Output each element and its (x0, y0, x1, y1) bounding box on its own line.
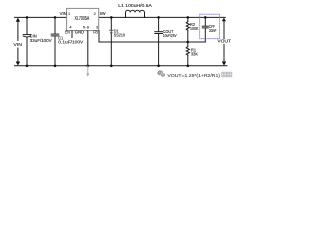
svg-text:2: 2 (94, 11, 96, 16)
ground arrow below rail (86, 66, 89, 77)
svg-text:10uF/25V: 10uF/25V (163, 33, 177, 38)
capacitor COUT (155, 17, 177, 65)
wire ground rail (15, 65, 228, 67)
node COUT bottom (157, 65, 160, 68)
wire top VIN rail (15, 16, 67, 18)
svg-text:1: 1 (68, 11, 70, 16)
VIN terminal arrow (13, 18, 22, 66)
node FB / divider (187, 41, 190, 44)
svg-text:VOUT=1.25*(1+R2/R1): VOUT=1.25*(1+R2/R1) (167, 73, 220, 79)
node R2 top (187, 16, 190, 19)
svg-text:33nF: 33nF (209, 28, 217, 33)
diode D1 SS210 (110, 17, 126, 65)
watermark logo (157, 70, 165, 77)
node CIN bottom (26, 65, 29, 68)
svg-text:EN: EN (65, 30, 70, 35)
svg-text:GND: GND (75, 30, 85, 35)
inductor L1 (118, 3, 152, 18)
node CFF top (204, 16, 207, 19)
dashed box around CFF (200, 14, 220, 39)
svg-text:VIN: VIN (60, 11, 67, 16)
node C1 top (54, 16, 57, 19)
resistor R2 (186, 17, 198, 42)
svg-text:XL7005A: XL7005A (75, 16, 90, 22)
svg-text:33uF/100V: 33uF/100V (30, 38, 53, 43)
capacitor CIN (23, 17, 52, 65)
capacitor CFF (202, 17, 216, 42)
svg-text:VIN: VIN (13, 42, 22, 48)
svg-text:FB: FB (93, 30, 98, 35)
VOUT terminal arrow (217, 18, 231, 66)
svg-text:VOUT: VOUT (217, 39, 231, 45)
svg-text:L1 100uH/0.5A: L1 100uH/0.5A (118, 3, 152, 9)
wire GND pin to ground (87, 31, 89, 66)
node R1 bottom (187, 65, 190, 68)
wire SW to inductor (99, 16, 146, 18)
capacitor C1 (51, 17, 84, 65)
node SW / D1 (110, 16, 113, 19)
node CIN top (26, 16, 29, 19)
node COUT top (157, 16, 160, 19)
svg-text:33K: 33K (191, 51, 198, 56)
svg-text:SW: SW (100, 11, 106, 16)
IC U1 XL7005A (60, 8, 106, 34)
node GND pin bottom (87, 65, 90, 68)
svg-text:100K: 100K (190, 26, 198, 31)
wire EN stub (71, 31, 73, 38)
node C1 bottom (54, 65, 57, 68)
watermark CJK blocks (222, 72, 232, 77)
node D1 bottom (110, 65, 113, 68)
resistor R1 (186, 42, 198, 66)
svg-text:SS210: SS210 (114, 32, 126, 37)
svg-text:8: 8 (87, 25, 89, 30)
wire inductor to VOUT end (145, 16, 225, 18)
svg-text:0.1uF/100V: 0.1uF/100V (58, 39, 84, 44)
wire FB lead (99, 31, 205, 42)
